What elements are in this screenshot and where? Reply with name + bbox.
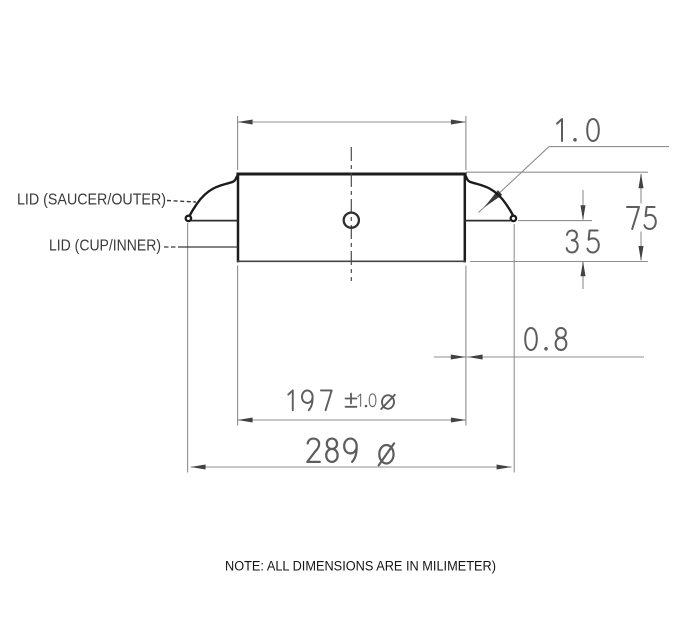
svg-text:LID (SAUCER/OUTER): LID (SAUCER/OUTER) [17, 192, 166, 209]
svg-text:NOTE: ALL DIMENSIONS ARE IN MI: NOTE: ALL DIMENSIONS ARE IN MILIMETER) [225, 559, 496, 575]
svg-text:LID (CUP/INNER): LID (CUP/INNER) [49, 238, 161, 255]
